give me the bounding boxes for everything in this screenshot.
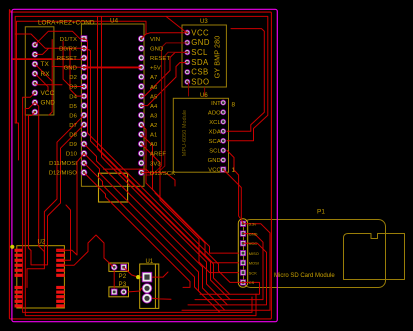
svg-text:A2: A2 [150,123,157,129]
svg-text:U2: U2 [38,239,46,245]
svg-text:A3: A3 [150,114,158,120]
svg-text:MPU-6050 Module: MPU-6050 Module [182,110,188,156]
svg-text:U3: U3 [200,19,208,25]
svg-text:GY BMP 280: GY BMP 280 [213,36,222,79]
svg-text:D1/TX: D1/TX [60,37,77,43]
svg-text:D11/MOSI: D11/MOSI [49,161,77,167]
svg-text:D6: D6 [69,113,77,119]
svg-text:3V3: 3V3 [150,161,161,167]
svg-text:D7: D7 [69,123,77,129]
svg-text:D12/MISO: D12/MISO [49,171,78,177]
svg-text:D3: D3 [69,85,77,91]
svg-text:LORA+REZ+COND: LORA+REZ+COND [38,20,95,27]
svg-text:8: 8 [232,101,236,108]
svg-text:GND: GND [41,100,56,107]
svg-text:D8: D8 [69,133,77,139]
svg-text:INT: INT [211,101,221,107]
svg-text:D5: D5 [69,104,77,110]
svg-text:P1: P1 [317,209,325,216]
svg-text:Micro SD Card Module: Micro SD Card Module [274,273,335,279]
svg-text:D9: D9 [69,142,77,148]
svg-text:VIN: VIN [150,37,160,43]
svg-text:SDA: SDA [191,58,209,67]
svg-text:U6: U6 [200,93,208,99]
svg-text:GND: GND [191,38,210,47]
svg-text:VCC: VCC [249,241,257,246]
svg-text:XCL: XCL [209,120,221,126]
svg-text:GND: GND [208,158,221,164]
svg-text:A4: A4 [150,104,158,110]
svg-text:D13/SCK: D13/SCK [150,171,175,177]
svg-text:VCC: VCC [191,28,209,37]
svg-text:RESET: RESET [57,56,77,62]
svg-text:RX: RX [41,71,51,78]
svg-text:SCK: SCK [249,270,257,275]
svg-text:XDA: XDA [209,130,221,136]
svg-text:AREF: AREF [150,152,166,158]
svg-text:ADO: ADO [208,110,221,116]
svg-text:SCA: SCA [209,139,221,145]
svg-text:GND: GND [249,231,258,236]
svg-text:RESET: RESET [150,56,170,62]
svg-text:+5V: +5V [150,66,161,72]
svg-text:GND: GND [150,47,163,53]
svg-text:SDO: SDO [191,78,209,87]
svg-text:D4: D4 [69,94,77,100]
svg-text:VCC: VCC [208,168,221,174]
svg-text:A7: A7 [150,75,157,81]
svg-text:A5: A5 [150,94,158,100]
svg-text:CSB: CSB [191,68,208,77]
svg-text:VCC: VCC [41,90,55,97]
svg-text:U4: U4 [110,18,119,25]
svg-text:TX: TX [41,61,50,68]
svg-text:GND: GND [64,66,77,72]
svg-text:D10: D10 [66,152,78,158]
svg-text:A1: A1 [150,133,157,139]
svg-text:A6: A6 [150,85,158,91]
svg-text:3.3v: 3.3v [249,222,256,227]
svg-text:D2: D2 [69,75,77,81]
svg-text:P2: P2 [119,273,127,280]
svg-text:SCL: SCL [209,149,221,155]
svg-text:D0/RX: D0/RX [59,47,77,53]
svg-text:A0: A0 [150,142,158,148]
svg-text:SCL: SCL [191,48,208,57]
svg-text:MISO: MISO [249,251,259,256]
svg-text:CS: CS [249,280,255,285]
svg-text:MOSI: MOSI [249,261,259,266]
svg-text:1: 1 [232,167,236,174]
svg-text:U1: U1 [146,259,154,265]
svg-text:P3: P3 [119,281,127,288]
